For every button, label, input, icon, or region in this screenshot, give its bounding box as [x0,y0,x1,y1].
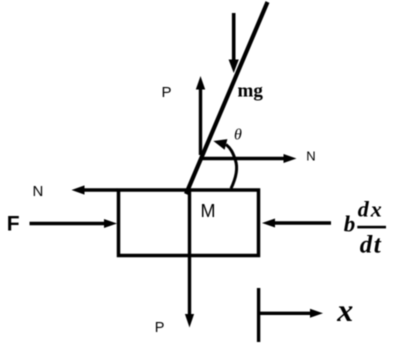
applied force arrow F [30,219,118,228]
angle arc theta [213,139,236,188]
reaction force arrow N rightward on pendulum [202,154,297,163]
svg-text:θ: θ [234,127,242,144]
svg-text:M: M [201,201,216,221]
svg-text:mg: mg [238,81,264,102]
x axis origin tick [257,288,260,342]
label fraction dx over dt [357,197,386,259]
friction force arrow b dx/dt leftward on cart [262,219,331,228]
cart body M rectangle [119,190,259,256]
svg-text:F: F [7,212,20,235]
svg-text:P: P [155,320,165,336]
svg-text:dt: dt [360,232,382,259]
svg-text:N: N [306,149,315,164]
x axis arrow [259,309,323,318]
svg-text:N: N [33,183,44,200]
gravity force arrow mg [229,13,239,73]
reaction force arrow P upward on pendulum [196,76,205,155]
reaction force arrow N leftward on cart [72,185,118,194]
svg-text:x: x [336,292,353,328]
pendulum rod [186,2,268,194]
reaction force arrow P downward through cart [185,192,194,328]
svg-text:b: b [344,212,356,237]
svg-text:dx: dx [358,197,384,222]
svg-text:P: P [162,84,172,101]
